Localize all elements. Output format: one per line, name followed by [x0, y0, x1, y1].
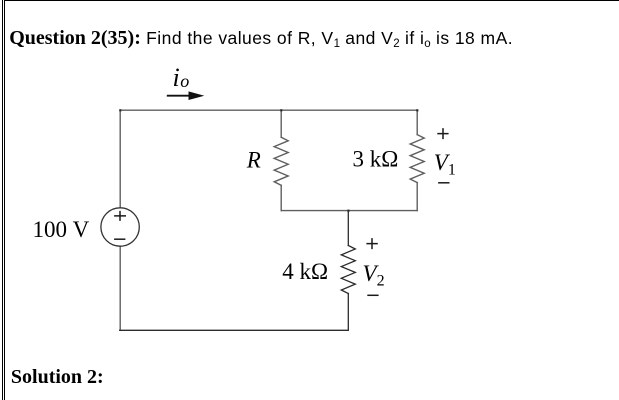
node: junction of R branch with top wire: [280, 109, 282, 111]
page left double border (inner line): [4, 0, 5, 400]
svg-text:V2: V2: [363, 261, 385, 290]
wire: 4 kOhm bottom lead to bottom wire: [347, 294, 349, 331]
svg-text:V: V: [73, 217, 90, 242]
resistor R (zigzag): [274, 137, 288, 185]
voltage source + polarity mark: [114, 211, 126, 221]
polarity - for V1: [438, 182, 449, 184]
wire: top horizontal (source node to 3 kOhm branch): [120, 109, 417, 111]
wire: R top lead: [280, 110, 282, 137]
node: top-right corner joint: [416, 109, 418, 111]
page top border: [4, 0, 619, 1]
resistor 4 kOhm (zigzag): [341, 246, 355, 294]
current arrow i_o (shaft): [167, 95, 190, 97]
svg-text:4 kΩ: 4 kΩ: [282, 259, 328, 284]
question title text: [9, 27, 513, 55]
voltage source 100 V (circle): [101, 208, 139, 246]
wire: R bottom lead: [280, 185, 282, 210]
polarity + for V1: [437, 128, 448, 139]
svg-text:R: R: [246, 148, 261, 173]
polarity - for V2: [367, 294, 378, 296]
svg-text:io: io: [173, 63, 190, 92]
wire: 4 kOhm top lead from middle node: [347, 211, 349, 246]
svg-text:V1: V1: [434, 150, 456, 179]
wire: left vertical, top wire down to source + terminal: [119, 110, 121, 208]
node: top-left corner joint: [119, 109, 121, 111]
wire: left vertical, source - terminal down to bottom wire: [119, 246, 121, 330]
solution heading: [11, 367, 104, 387]
wire: 3 kOhm bottom lead: [416, 183, 418, 211]
wire: bottom horizontal (source node to 4 kOhm branch): [120, 329, 349, 331]
svg-text:3 kΩ: 3 kΩ: [353, 147, 399, 172]
svg-text:100: 100: [33, 217, 68, 242]
wire: 3 kOhm top lead: [416, 110, 418, 134]
page left double border (outer line): [2, 0, 3, 400]
polarity + for V2: [366, 238, 377, 249]
wire: middle horizontal (node joining R, 3 kOhm, 4 kOhm): [281, 210, 417, 212]
voltage source - polarity mark: [114, 238, 125, 240]
resistor 3 kOhm (zigzag): [410, 135, 424, 183]
node: junction of 4 kOhm branch with middle wire: [347, 210, 349, 212]
current arrow i_o (head): [189, 91, 205, 100]
